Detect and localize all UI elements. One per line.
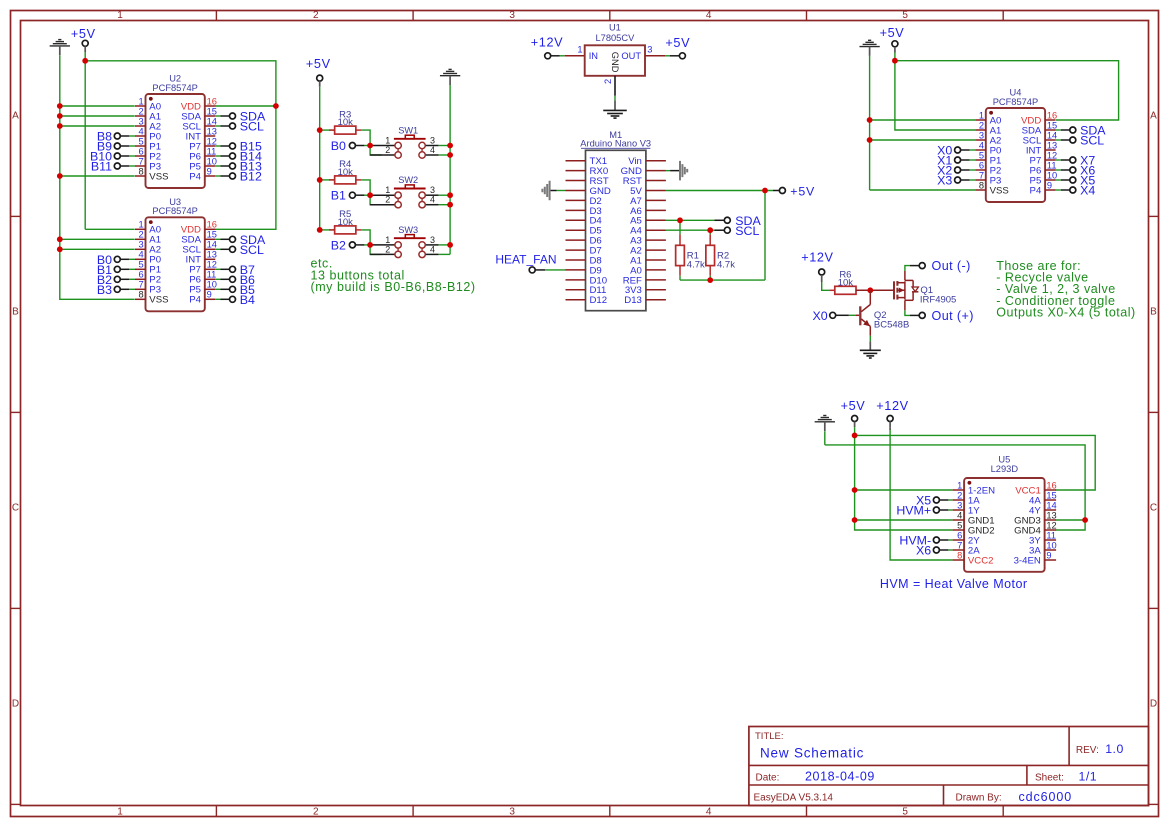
svg-text:4: 4 (430, 244, 435, 254)
svg-text:B0: B0 (331, 139, 346, 153)
svg-text:13: 13 (207, 250, 217, 260)
svg-text:12: 12 (1047, 150, 1057, 160)
svg-text:6: 6 (139, 146, 144, 156)
svg-text:HVM+: HVM+ (896, 504, 931, 518)
svg-text:2: 2 (957, 490, 962, 500)
svg-text:6: 6 (979, 160, 984, 170)
svg-text:6: 6 (139, 270, 144, 280)
svg-text:B11: B11 (91, 160, 112, 174)
svg-text:5: 5 (902, 806, 908, 817)
svg-text:8: 8 (139, 290, 144, 300)
svg-text:B1: B1 (331, 189, 346, 203)
svg-text:1/1: 1/1 (1079, 770, 1098, 784)
svg-text:HVM = Heat Valve Motor: HVM = Heat Valve Motor (880, 577, 1028, 591)
svg-text:Outputs X0-X4 (5 total): Outputs X0-X4 (5 total) (996, 306, 1135, 320)
svg-text:3: 3 (509, 806, 515, 817)
svg-text:X6: X6 (916, 544, 931, 558)
svg-text:12: 12 (207, 260, 217, 270)
svg-text:VCC2: VCC2 (968, 555, 994, 566)
svg-text:P4: P4 (189, 295, 201, 306)
svg-text:VSS: VSS (149, 171, 168, 182)
svg-text:2: 2 (385, 195, 390, 205)
svg-text:3: 3 (139, 240, 144, 250)
svg-text:6: 6 (957, 530, 962, 540)
svg-text:EasyEDA V5.3.14: EasyEDA V5.3.14 (754, 793, 834, 804)
svg-text:+5V: +5V (841, 399, 866, 413)
svg-text:+5V: +5V (790, 184, 815, 198)
svg-text:1: 1 (385, 235, 390, 245)
svg-text:P4: P4 (1030, 185, 1042, 196)
svg-text:SW2: SW2 (398, 175, 418, 185)
svg-text:A: A (12, 111, 19, 122)
svg-text:15: 15 (1046, 490, 1056, 500)
svg-text:B: B (12, 306, 19, 317)
svg-text:16: 16 (1046, 480, 1056, 490)
svg-text:New Schematic: New Schematic (760, 746, 864, 761)
svg-text:3: 3 (509, 10, 515, 21)
svg-text:(my build is B0-B6,B8-B12): (my build is B0-B6,B8-B12) (311, 280, 476, 294)
svg-text:SCL: SCL (1080, 134, 1104, 148)
svg-text:Out (-): Out (-) (932, 259, 971, 273)
svg-text:HEAT_FAN: HEAT_FAN (495, 252, 556, 266)
svg-text:14: 14 (207, 240, 217, 250)
svg-text:C: C (12, 503, 19, 514)
svg-text:11: 11 (1047, 160, 1057, 170)
svg-text:10: 10 (1046, 540, 1056, 550)
svg-text:+5V: +5V (880, 26, 905, 40)
svg-text:3-4EN: 3-4EN (1014, 555, 1041, 566)
svg-text:BC548B: BC548B (874, 319, 909, 330)
svg-text:1: 1 (117, 10, 123, 21)
svg-text:4: 4 (706, 806, 712, 817)
svg-text:SW1: SW1 (398, 126, 418, 136)
svg-text:Arduino Nano V3: Arduino Nano V3 (580, 138, 651, 148)
svg-text:14: 14 (1047, 130, 1057, 140)
svg-text:B2: B2 (331, 238, 346, 252)
svg-text:1: 1 (385, 136, 390, 146)
svg-text:2: 2 (385, 244, 390, 254)
svg-text:U1: U1 (609, 23, 621, 33)
svg-text:4.7k: 4.7k (717, 260, 735, 271)
svg-text:3: 3 (430, 185, 435, 195)
svg-text:10: 10 (1047, 170, 1057, 180)
svg-text:1.0: 1.0 (1105, 742, 1124, 756)
svg-text:2: 2 (603, 79, 613, 84)
svg-text:L293D: L293D (991, 464, 1019, 474)
svg-text:Sheet:: Sheet: (1035, 773, 1064, 784)
svg-text:+12V: +12V (531, 36, 563, 50)
svg-text:10k: 10k (338, 217, 354, 228)
svg-text:B: B (1150, 306, 1157, 317)
svg-text:4: 4 (957, 510, 962, 520)
svg-text:13: 13 (207, 126, 217, 136)
svg-text:5: 5 (979, 150, 984, 160)
svg-text:SW3: SW3 (398, 225, 418, 235)
svg-text:2: 2 (979, 120, 984, 130)
svg-text:+5V: +5V (665, 36, 690, 50)
svg-text:2: 2 (139, 230, 144, 240)
svg-text:4: 4 (139, 126, 144, 136)
svg-text:Date:: Date: (756, 773, 780, 784)
svg-text:10k: 10k (338, 117, 354, 128)
svg-text:3: 3 (979, 130, 984, 140)
svg-text:X0: X0 (812, 309, 827, 323)
svg-text:3: 3 (430, 136, 435, 146)
svg-text:D: D (12, 699, 19, 710)
svg-text:5: 5 (902, 10, 908, 21)
svg-text:D13: D13 (624, 295, 642, 306)
svg-text:3: 3 (957, 500, 962, 510)
svg-text:1: 1 (957, 480, 962, 490)
svg-text:4: 4 (430, 195, 435, 205)
svg-text:15: 15 (207, 106, 217, 116)
svg-text:C: C (1150, 503, 1157, 514)
svg-text:2: 2 (313, 10, 319, 21)
svg-text:B3: B3 (97, 283, 112, 297)
svg-text:3: 3 (647, 45, 652, 55)
svg-text:VSS: VSS (149, 295, 168, 306)
svg-text:PCF8574P: PCF8574P (993, 97, 1038, 107)
svg-text:cdc6000: cdc6000 (1019, 790, 1073, 804)
svg-text:2: 2 (139, 106, 144, 116)
svg-text:8: 8 (139, 166, 144, 176)
svg-text:8: 8 (957, 550, 962, 560)
svg-text:SCL: SCL (240, 120, 264, 134)
svg-text:9: 9 (1046, 550, 1051, 560)
svg-text:Out (+): Out (+) (932, 309, 974, 323)
svg-text:+5V: +5V (306, 57, 331, 71)
svg-text:SCL: SCL (240, 243, 264, 257)
svg-text:10: 10 (207, 156, 217, 166)
svg-text:1: 1 (577, 45, 582, 55)
svg-text:5: 5 (957, 520, 962, 530)
svg-text:B12: B12 (240, 170, 262, 184)
svg-text:7: 7 (139, 280, 144, 290)
svg-text:16: 16 (207, 220, 217, 230)
svg-text:13: 13 (1047, 140, 1057, 150)
svg-text:+12V: +12V (801, 251, 833, 265)
svg-text:OUT: OUT (621, 51, 641, 61)
svg-text:16: 16 (1047, 110, 1057, 120)
svg-text:Drawn By:: Drawn By: (956, 793, 1002, 804)
svg-text:5: 5 (139, 260, 144, 270)
svg-text:1: 1 (117, 806, 123, 817)
svg-text:D12: D12 (590, 295, 608, 306)
svg-text:IRF4905: IRF4905 (920, 295, 956, 306)
svg-text:2018-04-09: 2018-04-09 (805, 770, 875, 784)
svg-text:11: 11 (207, 146, 217, 156)
svg-text:P4: P4 (189, 171, 201, 182)
svg-text:10k: 10k (338, 167, 354, 178)
svg-text:16: 16 (207, 96, 217, 106)
svg-text:4: 4 (139, 250, 144, 260)
svg-text:IN: IN (589, 51, 598, 61)
svg-text:+12V: +12V (876, 399, 908, 413)
svg-text:13: 13 (1046, 510, 1056, 520)
svg-text:10: 10 (207, 280, 217, 290)
svg-text:GND: GND (610, 52, 620, 73)
svg-text:7: 7 (139, 156, 144, 166)
svg-text:15: 15 (207, 230, 217, 240)
svg-text:D: D (1150, 699, 1157, 710)
svg-text:7: 7 (957, 540, 962, 550)
svg-text:4: 4 (979, 140, 984, 150)
svg-text:REV:: REV: (1076, 745, 1099, 756)
svg-text:B4: B4 (240, 293, 255, 307)
svg-text:8: 8 (979, 180, 984, 190)
svg-text:L7805CV: L7805CV (596, 33, 636, 43)
svg-text:VSS: VSS (990, 185, 1009, 196)
svg-text:15: 15 (1047, 120, 1057, 130)
svg-text:9: 9 (207, 166, 212, 176)
svg-text:PCF8574P: PCF8574P (152, 206, 197, 216)
svg-text:9: 9 (207, 290, 212, 300)
svg-text:4: 4 (430, 145, 435, 155)
svg-text:7: 7 (979, 170, 984, 180)
svg-text:5: 5 (139, 136, 144, 146)
svg-text:9: 9 (1047, 180, 1052, 190)
svg-text:1: 1 (139, 220, 144, 230)
svg-text:A: A (1150, 111, 1157, 122)
svg-text:3: 3 (430, 235, 435, 245)
svg-text:12: 12 (207, 136, 217, 146)
svg-text:2: 2 (313, 806, 319, 817)
svg-text:1: 1 (385, 185, 390, 195)
svg-text:1: 1 (979, 110, 984, 120)
svg-text:X3: X3 (937, 174, 952, 188)
svg-text:11: 11 (207, 270, 217, 280)
svg-text:10k: 10k (838, 277, 854, 288)
svg-text:12: 12 (1046, 520, 1056, 530)
svg-text:1: 1 (139, 96, 144, 106)
svg-text:14: 14 (207, 116, 217, 126)
svg-text:14: 14 (1046, 500, 1056, 510)
svg-text:PCF8574P: PCF8574P (152, 83, 197, 93)
svg-text:3: 3 (139, 116, 144, 126)
svg-text:SCL: SCL (735, 224, 759, 238)
svg-text:4: 4 (706, 10, 712, 21)
svg-text:4.7k: 4.7k (687, 260, 705, 271)
svg-text:2: 2 (385, 145, 390, 155)
svg-text:TITLE:: TITLE: (755, 731, 784, 742)
svg-text:+5V: +5V (71, 27, 96, 41)
svg-text:11: 11 (1046, 530, 1056, 540)
svg-text:X4: X4 (1080, 184, 1095, 198)
